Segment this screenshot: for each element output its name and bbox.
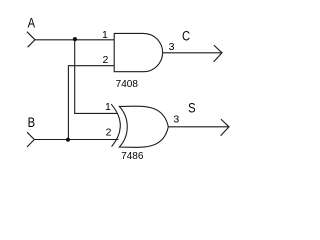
wire AND output to C xyxy=(163,52,222,54)
svg-text:2: 2 xyxy=(102,54,108,66)
input connector A xyxy=(27,32,35,48)
junction on net A xyxy=(73,37,77,41)
XOR gate 7486 input arc xyxy=(111,104,120,146)
svg-text:1: 1 xyxy=(102,29,108,41)
wire net B branch to AND pin 2 xyxy=(68,66,114,140)
svg-text:3: 3 xyxy=(173,114,179,126)
svg-text:3: 3 xyxy=(169,41,175,53)
svg-text:B: B xyxy=(28,115,35,130)
svg-text:2: 2 xyxy=(106,127,112,139)
svg-text:C: C xyxy=(182,28,190,43)
wire XOR output to S xyxy=(168,126,229,128)
input connector B xyxy=(27,132,34,147)
wire net B to XOR pin 2 xyxy=(34,139,118,141)
output connector S xyxy=(221,119,229,136)
svg-text:A: A xyxy=(28,15,36,30)
svg-text:S: S xyxy=(188,100,195,115)
wire net A to AND pin 1 xyxy=(35,39,114,41)
svg-text:7408: 7408 xyxy=(116,79,139,90)
output connector C xyxy=(214,45,222,62)
junction on net B xyxy=(66,138,70,142)
wire net A branch to XOR pin 1 xyxy=(75,40,117,114)
svg-text:7486: 7486 xyxy=(121,151,144,162)
AND gate 7408 xyxy=(114,33,162,71)
XOR gate 7486 body xyxy=(119,106,168,147)
svg-text:1: 1 xyxy=(105,101,111,113)
